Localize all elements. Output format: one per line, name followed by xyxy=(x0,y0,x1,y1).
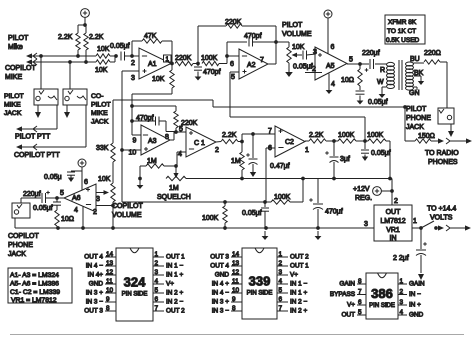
svg-text:JACK: JACK xyxy=(91,119,109,126)
svg-text:PHONE: PHONE xyxy=(8,242,33,249)
svg-text:A1- A3 = LM324: A1- A3 = LM324 xyxy=(10,272,59,279)
svg-text:5: 5 xyxy=(60,190,64,197)
svg-text:C 1: C 1 xyxy=(194,140,205,147)
wire A6 output xyxy=(51,197,64,199)
svg-text:COPILOT PTT: COPILOT PTT xyxy=(14,152,60,159)
wire pilot phone drop xyxy=(405,107,412,141)
svg-text:A3: A3 xyxy=(148,138,157,145)
node 220K/100K junction xyxy=(196,62,200,66)
op-amp A5 xyxy=(315,47,347,80)
svg-text:IN +: IN + xyxy=(409,302,421,309)
svg-text:IN 4 −: IN 4 − xyxy=(86,263,103,270)
wire to copilot jack xyxy=(20,198,22,203)
svg-text:12: 12 xyxy=(106,269,114,276)
wire copilot jack tip xyxy=(69,62,71,89)
svg-text:14: 14 xyxy=(106,251,114,258)
wire jack sleeve down xyxy=(450,124,452,130)
jack copilot phone xyxy=(12,203,30,218)
svg-text:8: 8 xyxy=(358,278,362,285)
node VR1 pin1 xyxy=(419,226,423,230)
svg-text:10K: 10K xyxy=(95,67,108,74)
wire bus A2pin5 to C2 net xyxy=(230,117,365,141)
svg-text:IN −: IN − xyxy=(409,291,421,298)
svg-text:10: 10 xyxy=(232,287,240,294)
svg-text:33K: 33K xyxy=(96,145,109,152)
IC pinout 386 xyxy=(330,273,425,319)
svg-text:9: 9 xyxy=(232,296,236,303)
svg-text:4: 4 xyxy=(178,151,182,158)
resistor 10K (A1 output divider) xyxy=(152,64,174,95)
svg-text:IN 4 +: IN 4 + xyxy=(212,281,229,288)
node A3 pin10 xyxy=(120,148,124,152)
text box XFMR spec xyxy=(385,15,425,44)
svg-text:OUT 4: OUT 4 xyxy=(210,263,229,270)
jack copilot mike xyxy=(63,89,87,105)
svg-text:2: 2 xyxy=(394,198,398,205)
svg-text:9: 9 xyxy=(106,296,110,303)
svg-text:VR1: VR1 xyxy=(386,227,400,234)
svg-text:10: 10 xyxy=(129,150,137,157)
svg-text:V+: V+ xyxy=(290,272,298,279)
svg-text:6: 6 xyxy=(155,296,159,303)
svg-text:6: 6 xyxy=(268,145,272,152)
wiper arrow squelch xyxy=(173,166,178,178)
node squelch gnd xyxy=(138,177,142,181)
node 0.05uf junction xyxy=(363,139,367,143)
resistor 1M (C1 pin4 bias) xyxy=(140,158,176,168)
capacitor 0.05uf (C2 net) xyxy=(361,141,391,157)
resistor 10 ohm (A5 load) xyxy=(341,64,362,90)
svg-text:11: 11 xyxy=(232,278,239,285)
node pilot phone bus xyxy=(403,105,407,109)
svg-text:3: 3 xyxy=(155,269,159,276)
svg-text:OUT 2: OUT 2 xyxy=(166,308,185,315)
wire A1 pin3 label xyxy=(131,75,135,82)
svg-text:COPILOT: COPILOT xyxy=(5,65,36,72)
svg-text:2.2K: 2.2K xyxy=(58,34,73,41)
label 0.47uf xyxy=(270,163,290,170)
ground (C2 net) xyxy=(362,155,368,162)
svg-text:100K: 100K xyxy=(367,132,384,139)
regulator VR1 LM7812 xyxy=(374,205,412,242)
svg-text:PILOT: PILOT xyxy=(406,106,427,113)
svg-text:IN 1 −: IN 1 − xyxy=(166,263,183,270)
wire secondary top BU xyxy=(410,56,424,63)
ground (copilot mike jack) xyxy=(64,105,70,118)
svg-text:5: 5 xyxy=(155,287,159,294)
svg-text:220Ω: 220Ω xyxy=(424,50,441,57)
wire A6 pin3 wiper xyxy=(96,190,109,203)
svg-text:0.05μ: 0.05μ xyxy=(44,174,62,181)
svg-text:1M: 1M xyxy=(147,158,157,165)
svg-text:C2: C2 xyxy=(285,139,294,146)
svg-text:7: 7 xyxy=(358,289,362,296)
svg-text:W: W xyxy=(377,79,384,86)
resistor 2.2K (C2 out) xyxy=(305,132,334,143)
svg-text:GN: GN xyxy=(409,90,420,97)
capacitor 470pf (to ground) xyxy=(194,64,221,77)
svg-text:220K: 220K xyxy=(175,55,192,62)
svg-text:VOLUME: VOLUME xyxy=(112,212,142,219)
svg-text:7: 7 xyxy=(268,128,272,135)
ground (A6 supply cap) xyxy=(68,176,74,183)
node A3 bias tap xyxy=(130,104,134,108)
wire A3 pin9 xyxy=(132,121,141,145)
svg-text:13: 13 xyxy=(106,260,114,267)
wire 1M left leg xyxy=(139,166,141,179)
svg-text:0.05μf: 0.05μf xyxy=(371,150,391,157)
resistor 100K (rail divider) xyxy=(202,202,227,228)
svg-text:4: 4 xyxy=(400,309,404,316)
svg-text:C1- C2 = LM339: C1- C2 = LM339 xyxy=(10,289,60,296)
ground (A5 pin4) xyxy=(326,85,333,94)
comparator C1 xyxy=(186,127,216,157)
node A6 output xyxy=(55,196,59,200)
wire to pilot volume pot xyxy=(276,42,289,47)
svg-text:10K: 10K xyxy=(152,76,165,83)
svg-text:PIN SIDE: PIN SIDE xyxy=(247,291,273,297)
node A2 pin6 xyxy=(225,54,239,68)
svg-text:7: 7 xyxy=(260,57,264,64)
ground (C1 out filter) xyxy=(250,169,256,177)
svg-text:3: 3 xyxy=(313,49,317,56)
svg-text:CO-: CO- xyxy=(91,93,103,100)
wire bus pilot-phone (y100-107) xyxy=(113,100,405,107)
transformer T1 secondary xyxy=(406,62,414,90)
node A2 output top xyxy=(274,40,278,44)
svg-text:OUT 3: OUT 3 xyxy=(210,254,229,261)
svg-text:COPILOT: COPILOT xyxy=(112,203,143,210)
capacitor 470pf (A2 feedback) xyxy=(227,33,276,56)
svg-text:MIKE: MIKE xyxy=(91,110,108,117)
ground (primary W) xyxy=(379,89,386,98)
svg-text:2: 2 xyxy=(93,209,97,216)
wire C2 pin6 xyxy=(266,145,275,202)
svg-text:A2: A2 xyxy=(247,62,256,69)
power supply terminal V+ (A6) xyxy=(78,159,86,190)
wire rail to VR1 xyxy=(391,179,393,206)
svg-text:470pf: 470pf xyxy=(244,33,262,40)
svg-text:1: 1 xyxy=(155,251,159,258)
svg-text:PILOT: PILOT xyxy=(8,35,29,42)
svg-text:1: 1 xyxy=(413,218,417,225)
wire A3 pin10 xyxy=(122,150,141,157)
svg-text:6: 6 xyxy=(230,61,234,68)
svg-text:VR1 = LM7812: VR1 = LM7812 xyxy=(11,297,57,304)
wire pilot mike line xyxy=(26,53,96,59)
svg-text:2 2μf: 2 2μf xyxy=(393,255,409,262)
svg-text:IN 1 −: IN 1 − xyxy=(290,281,307,288)
jack squiggle pilot xyxy=(48,96,57,100)
resistor 2.2K (C1 output) xyxy=(216,132,242,144)
wire C1 pin4 xyxy=(177,151,186,166)
wire VR1 pin1 xyxy=(412,227,421,229)
node pilot line dots xyxy=(39,54,80,58)
svg-text:2: 2 xyxy=(279,260,283,267)
op-amp A1 xyxy=(139,48,171,79)
svg-text:10K: 10K xyxy=(98,176,111,183)
svg-text:3μf: 3μf xyxy=(340,156,350,163)
wire A5 pin4 xyxy=(329,74,335,89)
label TO RADIO PHONES xyxy=(425,150,459,166)
ground (secondary BK) xyxy=(418,79,424,85)
svg-text:Mike: Mike xyxy=(8,44,23,51)
svg-text:10Ω: 10Ω xyxy=(61,216,74,223)
capacitor 2.2uf xyxy=(393,228,427,273)
svg-text:0.05μf: 0.05μf xyxy=(110,43,130,50)
wire copilot jack sleeve xyxy=(14,218,16,228)
resistor 2.2K (copilot mike bias) xyxy=(84,33,104,62)
svg-text:0.05μf: 0.05μf xyxy=(368,99,388,106)
svg-text:VOLUME: VOLUME xyxy=(282,31,312,38)
svg-text:4: 4 xyxy=(279,278,283,285)
power supply terminal V+ (A5) xyxy=(324,10,335,54)
svg-text:IN 2 −: IN 2 − xyxy=(166,299,183,306)
arrows to +14.4 volts xyxy=(434,225,471,231)
svg-text:324: 324 xyxy=(124,275,146,290)
potentiometer 10K pilot volume xyxy=(287,44,305,63)
ground (A5 load) xyxy=(357,96,364,105)
label CO-PILOT MIKE JACK xyxy=(91,93,111,126)
wire A6 pin2 xyxy=(93,206,113,217)
svg-text:0.05μf: 0.05μf xyxy=(242,210,262,217)
node rail228 dots xyxy=(56,226,320,230)
capacitor 0.05uf (A5 load) xyxy=(356,91,388,106)
resistor 10K (copilot mike) xyxy=(95,57,115,75)
label COPILOT PHONE JACK xyxy=(8,233,39,258)
svg-text:OUT: OUT xyxy=(386,209,402,216)
wire rail y178 xyxy=(186,178,392,180)
svg-text:2: 2 xyxy=(215,147,219,154)
svg-text:470μf: 470μf xyxy=(325,209,343,216)
transformer core xyxy=(399,60,402,90)
node summing junction xyxy=(114,54,118,58)
wire pilot jack tip xyxy=(40,56,42,89)
wire pot bottom xyxy=(112,202,114,228)
svg-text:2.2K: 2.2K xyxy=(89,34,104,41)
wire 10K to A3 node xyxy=(132,94,172,121)
svg-text:8: 8 xyxy=(165,134,169,141)
svg-text:TO +14.4: TO +14.4 xyxy=(427,206,456,213)
wire 100K down to rail xyxy=(389,141,391,179)
capacitor 0.05uf (A6 load) xyxy=(33,198,61,212)
ground (470uf) xyxy=(315,231,322,240)
svg-text:6: 6 xyxy=(84,179,88,186)
label A5 pin5 xyxy=(349,57,353,64)
node C1 out xyxy=(240,140,244,144)
node copilot pot bottom xyxy=(111,204,115,208)
node mike bias junction xyxy=(78,23,87,33)
label C1 pin2 xyxy=(215,147,219,154)
svg-text:IN 2 −: IN 2 − xyxy=(290,299,307,306)
svg-text:339: 339 xyxy=(249,274,271,289)
svg-text:5: 5 xyxy=(279,287,283,294)
svg-text:PHONE: PHONE xyxy=(406,115,431,122)
svg-text:2: 2 xyxy=(312,66,316,73)
label PILOT PTT xyxy=(15,134,51,141)
capacitor 0.05uf (rail) xyxy=(242,202,269,228)
ground (pilot volume pot) xyxy=(285,63,293,77)
svg-text:2: 2 xyxy=(131,60,135,67)
jack pilot mike xyxy=(34,89,58,105)
potentiometer 1M squelch xyxy=(166,176,186,192)
resistor 220K (A2 feedback) xyxy=(198,19,276,64)
svg-text:PHONES: PHONES xyxy=(428,159,458,166)
capacitor 470uf xyxy=(309,179,343,229)
transformer T1 primary xyxy=(387,62,395,88)
svg-text:100K: 100K xyxy=(201,55,218,62)
svg-text:VOLTS: VOLTS xyxy=(430,215,453,222)
svg-text:GAIN: GAIN xyxy=(409,281,425,288)
svg-text:GND: GND xyxy=(89,281,104,288)
svg-text:47K: 47K xyxy=(144,33,157,40)
capacitor 220uf (copilot phone) xyxy=(21,191,51,203)
wire copilot mike line xyxy=(26,59,96,65)
svg-text:1M: 1M xyxy=(169,185,179,192)
svg-text:1: 1 xyxy=(279,251,283,258)
svg-text:10K: 10K xyxy=(97,46,110,53)
svg-text:IN 1 +: IN 1 + xyxy=(166,272,183,279)
pin 1 boxed (A1 output) xyxy=(164,55,172,63)
arrow terminal (2.2uf) xyxy=(418,274,424,280)
svg-text:GAIN: GAIN xyxy=(339,281,355,288)
wire A2 pin5 xyxy=(230,72,239,117)
node squelch junction xyxy=(174,164,178,168)
op-amp A3 xyxy=(141,125,170,155)
capacitor 0.05u (A6 supply) xyxy=(44,171,82,181)
svg-text:TO RADIO: TO RADIO xyxy=(425,150,459,157)
svg-text:IN 1 +: IN 1 + xyxy=(290,290,307,297)
svg-text:OUT 2: OUT 2 xyxy=(290,254,309,261)
svg-text:7: 7 xyxy=(155,305,159,312)
ground (pilot mike jack) xyxy=(35,105,41,118)
node 3uf junction xyxy=(332,139,336,143)
node rail202 dots xyxy=(223,200,267,204)
svg-text:1: 1 xyxy=(305,147,309,154)
switch to +14.4 xyxy=(421,221,434,228)
svg-text:220K: 220K xyxy=(225,19,242,26)
svg-text:8: 8 xyxy=(232,305,236,312)
svg-text:XFMR 8K: XFMR 8K xyxy=(388,19,417,26)
svg-text:GND: GND xyxy=(215,272,230,279)
svg-text:470pf: 470pf xyxy=(203,69,221,76)
svg-text:IN 3 +: IN 3 + xyxy=(212,299,229,306)
wire C2 pin7 xyxy=(242,128,275,142)
svg-text:5: 5 xyxy=(231,74,235,81)
svg-text:2.2K: 2.2K xyxy=(309,132,324,139)
label TO +14.4 VOLTS xyxy=(427,206,456,222)
resistor 100K (to A2 pin6) xyxy=(201,55,227,66)
svg-text:3: 3 xyxy=(279,269,283,276)
op-amp A6 xyxy=(64,184,96,212)
node C1 pin5 xyxy=(174,126,186,134)
pin 2 stub (A5) xyxy=(305,66,322,73)
capacitor 470pf (A3 feedback) xyxy=(132,115,166,132)
label A6 pin6 xyxy=(84,179,88,186)
svg-text:BU: BU xyxy=(410,56,420,63)
label R (primary top) xyxy=(380,67,385,74)
svg-text:2: 2 xyxy=(155,260,159,267)
svg-text:0.05μf: 0.05μf xyxy=(293,64,313,71)
node rail178 dots xyxy=(240,177,392,181)
svg-text:6: 6 xyxy=(331,44,335,51)
svg-text:4: 4 xyxy=(331,81,335,88)
svg-text:220μf: 220μf xyxy=(362,50,380,57)
IC pinout 339 xyxy=(210,248,309,319)
jack squiggle copilot xyxy=(77,96,86,100)
resistor 10K (pilot mike) xyxy=(96,46,116,58)
svg-text:2: 2 xyxy=(400,289,404,296)
svg-text:4: 4 xyxy=(155,278,159,285)
svg-text:4: 4 xyxy=(74,207,78,214)
resistor 220K (A3 node) xyxy=(132,106,198,132)
node A1 output xyxy=(170,62,174,66)
wire A3 output xyxy=(165,132,176,142)
svg-text:5: 5 xyxy=(358,309,362,316)
svg-text:13: 13 xyxy=(232,260,240,267)
label PILOT MIKE JACK xyxy=(4,93,24,117)
svg-text:2.2K: 2.2K xyxy=(222,132,237,139)
svg-text:7: 7 xyxy=(279,305,283,312)
label A5 pin3 xyxy=(313,49,317,56)
ground (470pf) xyxy=(195,72,202,81)
resistor 100K (rail horizontal) xyxy=(265,179,303,205)
node copilot line dots xyxy=(68,60,88,64)
label COPILOT MIKE xyxy=(5,65,36,81)
jack pilot phone xyxy=(438,108,454,124)
wire 220ohm down to jack xyxy=(446,62,448,108)
label A6 pin5 xyxy=(60,190,64,197)
svg-text:JACK: JACK xyxy=(8,251,26,258)
svg-text:IN 3 +: IN 3 + xyxy=(86,290,103,297)
node A3 feedback xyxy=(130,119,134,123)
resistor 220 ohm xyxy=(424,50,447,64)
svg-text:14: 14 xyxy=(232,251,240,258)
svg-text:10: 10 xyxy=(106,287,114,294)
svg-text:386: 386 xyxy=(371,286,393,301)
svg-text:OUT 1: OUT 1 xyxy=(166,254,185,261)
label COPILOT PTT xyxy=(14,152,60,159)
node A1 pin2 xyxy=(130,54,139,67)
scan artifact bottom line xyxy=(10,334,464,336)
svg-text:JACK: JACK xyxy=(4,110,22,117)
capacitor 1uf (C1 out filter) xyxy=(246,134,257,170)
capacitor 0.05uf (A1 input) xyxy=(110,43,132,61)
svg-text:1: 1 xyxy=(400,278,404,285)
label PILOT VOLUME xyxy=(282,22,312,38)
svg-text:A5: A5 xyxy=(326,63,335,70)
wire pilot PTT xyxy=(16,105,57,132)
svg-text:9: 9 xyxy=(133,138,137,145)
svg-text:10K: 10K xyxy=(292,44,305,51)
svg-text:R: R xyxy=(380,67,385,74)
power terminal +12V REG xyxy=(353,186,392,202)
svg-text:1M: 1M xyxy=(231,158,241,165)
resistor 150 ohm xyxy=(405,133,438,143)
label SQUELCH xyxy=(157,194,191,201)
svg-text:MIKE: MIKE xyxy=(5,74,22,81)
svg-text:3: 3 xyxy=(96,196,100,203)
svg-text:PILOT: PILOT xyxy=(4,93,24,100)
label A2 pin7 xyxy=(260,57,264,64)
svg-text:A6: A6 xyxy=(72,195,81,202)
legend box xyxy=(8,268,72,304)
svg-text:IN 3 −: IN 3 − xyxy=(212,308,229,315)
svg-text:5: 5 xyxy=(179,126,183,133)
svg-text:REG.: REG. xyxy=(355,195,372,202)
capacitor 0.05uf (to A5 pin3) xyxy=(293,51,316,71)
op-amp A2 xyxy=(239,49,268,79)
